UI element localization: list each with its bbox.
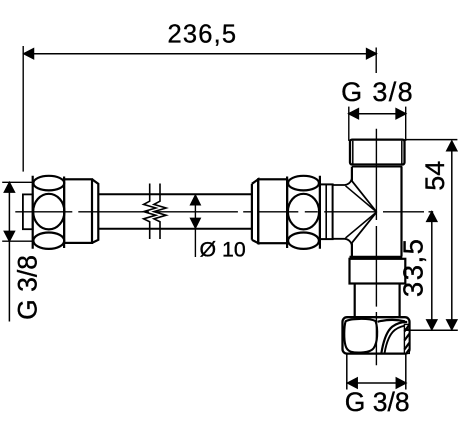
right fitting chamfer bbox=[252, 179, 258, 243]
bottom nut hatched section strip bbox=[404, 324, 409, 353]
dimension 236,5 right extension line bbox=[375, 48, 377, 74]
dimension G3/8 left top tick bbox=[2, 181, 32, 183]
valve top collar under line bbox=[352, 166, 402, 168]
bottom nut top chamfer arc right bbox=[378, 320, 406, 322]
right fitting thread collar bbox=[320, 184, 333, 239]
left union nut edge bbox=[32, 176, 34, 249]
bottom nut outline bbox=[343, 317, 410, 353]
left union nut bottom facet ellipse bbox=[33, 233, 64, 249]
hose top line bbox=[98, 193, 252, 195]
right fitting cylinder bbox=[258, 179, 287, 243]
valve top collar thread line right bbox=[401, 141, 403, 164]
cone top inner line bbox=[346, 186, 377, 212]
svg-text:G 3/8: G 3/8 bbox=[345, 387, 410, 417]
left union nut middle facet ellipse bbox=[33, 194, 64, 230]
dimension 33,5/54 bottom extension line bbox=[405, 329, 458, 331]
dimension G3/8 left bottom tick bbox=[2, 240, 32, 242]
left hose male thread stub bbox=[23, 194, 33, 229]
dimension G3/8 bottom line bbox=[348, 378, 406, 388]
dimension G3/8 top left extension bbox=[348, 107, 350, 141]
cone bottom outer line bbox=[333, 212, 377, 244]
svg-text:G 3/8: G 3/8 bbox=[341, 77, 414, 107]
right union nut top facet ellipse bbox=[288, 176, 319, 191]
valve top collar bbox=[350, 140, 405, 165]
dimension 54 line bbox=[447, 141, 457, 329]
right fitting thread collar inner line bbox=[325, 184, 327, 239]
dimension G3/8 top right extension bbox=[405, 107, 407, 141]
right union nut right edge bbox=[319, 176, 321, 249]
svg-text:236,5: 236,5 bbox=[167, 20, 237, 48]
bottom thread extension line right bbox=[405, 353, 407, 389]
left fitting chamfer bbox=[92, 179, 98, 243]
left fitting cylinder bbox=[64, 179, 92, 243]
bottom nut middle facet curve inner bbox=[385, 325, 409, 353]
svg-text:G 3/8: G 3/8 bbox=[13, 255, 43, 320]
dimension Ø10 arrows bbox=[191, 195, 201, 257]
svg-text:Ø 10: Ø 10 bbox=[200, 237, 246, 261]
valve top collar thread line left bbox=[352, 141, 354, 164]
valve pipe upper right edge bbox=[400, 167, 402, 257]
left union nut top facet ellipse bbox=[33, 176, 64, 191]
bottom thread extension line left bbox=[346, 354, 348, 390]
right union nut bottom facet ellipse bbox=[288, 233, 319, 249]
dimension 236,5 line bbox=[24, 49, 376, 59]
right fitting end cap bbox=[251, 184, 253, 240]
valve pipe upper left edge bbox=[351, 167, 353, 257]
svg-text:33,5: 33,5 bbox=[397, 238, 428, 298]
hose break line left bbox=[144, 184, 156, 240]
dimension G3/8 top line bbox=[349, 109, 406, 119]
valve body band bbox=[350, 259, 406, 284]
vertical centerline segments bbox=[375, 129, 377, 366]
svg-text:54: 54 bbox=[420, 161, 450, 191]
bottom nut middle facet curve outer bbox=[381, 322, 407, 353]
hose break line right bbox=[154, 184, 166, 240]
cone bottom inner line bbox=[346, 212, 377, 238]
right union nut middle facet ellipse bbox=[288, 194, 319, 230]
right union nut left boundary bbox=[286, 177, 288, 249]
bottom nut left facet bbox=[344, 319, 377, 353]
valve pipe lower section bbox=[355, 284, 400, 318]
valve shoulder thick line bbox=[350, 256, 403, 259]
horizontal centerline bbox=[15, 211, 433, 213]
left union nut right boundary bbox=[63, 177, 65, 249]
cone top outer line bbox=[333, 180, 377, 212]
dimension G3/8 left vertical line bbox=[4, 183, 14, 322]
dimension 33,5 line bbox=[427, 212, 437, 330]
hose bottom line bbox=[98, 228, 252, 230]
dimension 54 extension line (collar top) bbox=[405, 139, 458, 141]
dimension 236,5 left extension line bbox=[22, 46, 24, 172]
